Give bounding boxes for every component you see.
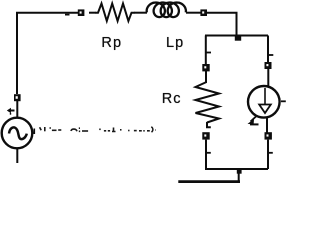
wire current source to node N7 [266,118,268,134]
wire node N5 to current source [267,69,269,87]
node N2 after inductor [200,9,207,16]
inductor Lp [147,3,186,18]
ground bar [178,180,240,183]
node N4 left branch [202,64,209,71]
bottom bracket wire [205,168,268,170]
node N5 right branch [265,62,272,69]
label Rp [101,35,122,51]
pin tick right branch lower [268,152,273,154]
wire between Lp and node N2 [186,12,201,14]
pin tick left branch lower [206,152,211,154]
resistor Rp [96,4,135,22]
wire top horizontal left segment [16,12,78,14]
node N7 right bottom [265,132,272,139]
wire top-left vertical [16,13,18,95]
pin tick right branch upper [268,54,273,56]
node N1 on top wire [78,9,85,16]
wire between node N1 and Rp [89,12,96,14]
sine wave inside source [9,127,27,139]
wire right branch upper [267,36,269,64]
polarity arrow marker bottom-left of current source [248,116,259,125]
polarity arrow marker top-left of source [7,108,15,114]
current source / probe circle [248,86,280,118]
AC voltage source circle [2,118,33,149]
node N6 left bottom [202,132,209,139]
tick right of current source [281,100,286,102]
resistor Rc [196,82,220,123]
wire between Rp and Lp [134,12,147,14]
Rc bottom lead with tick [207,122,211,128]
tick right of source [33,129,35,135]
node N3 above voltage source [14,94,21,101]
current source arrow inside [259,88,271,113]
ground stem wire [238,169,240,182]
wire node N4 to Rc [205,71,207,83]
junction J1 on top bracket [235,36,241,41]
pin tick on top wire [65,14,70,16]
wire left branch upper [205,36,207,65]
wire below source [16,149,18,164]
wire node N7 to bottom bracket [267,140,269,169]
pin tick left branch upper [206,52,211,54]
wire node N3 to voltage source [16,101,18,118]
faint value text fragments [40,127,156,132]
label Rc [162,91,182,107]
top bracket wire [205,35,268,37]
wire node N6 to bottom bracket [205,140,207,169]
label Lp [166,35,184,51]
wire node N2 to top-right corner [207,13,237,36]
junction J2 on bottom bracket [237,169,242,173]
